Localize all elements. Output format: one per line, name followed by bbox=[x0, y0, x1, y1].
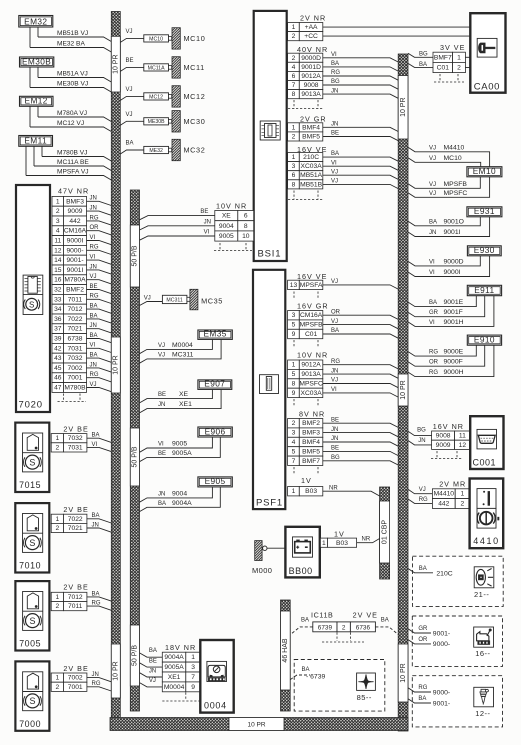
svg-text:9001E: 9001E bbox=[444, 299, 464, 306]
svg-text:2V BE: 2V BE bbox=[63, 505, 88, 514]
svg-text:OR: OR bbox=[429, 360, 439, 366]
svg-text:9001D: 9001D bbox=[301, 64, 321, 71]
svg-text:VJ: VJ bbox=[90, 382, 97, 388]
svg-text:VI: VI bbox=[204, 230, 210, 236]
svg-text:7032: 7032 bbox=[68, 435, 83, 442]
svg-text:210C: 210C bbox=[436, 571, 452, 578]
svg-text:BMF3: BMF3 bbox=[302, 430, 320, 437]
svg-text:OR: OR bbox=[418, 637, 428, 643]
svg-text:9000H: 9000H bbox=[444, 369, 464, 376]
svg-text:S: S bbox=[29, 616, 35, 626]
svg-text:9: 9 bbox=[292, 390, 296, 397]
svg-text:JN: JN bbox=[331, 88, 338, 94]
svg-text:VJ: VJ bbox=[158, 353, 165, 359]
svg-text:C001: C001 bbox=[473, 457, 497, 467]
svg-text:MC10: MC10 bbox=[444, 155, 462, 162]
svg-text:12: 12 bbox=[459, 442, 467, 449]
svg-text:VJ: VJ bbox=[126, 29, 133, 35]
svg-text:11: 11 bbox=[54, 238, 61, 245]
svg-text:BE: BE bbox=[90, 284, 98, 290]
svg-text:46 HAB: 46 HAB bbox=[282, 638, 289, 662]
svg-text:M780A VJ: M780A VJ bbox=[57, 110, 87, 117]
svg-text:2: 2 bbox=[56, 208, 60, 215]
svg-text:7022: 7022 bbox=[68, 316, 83, 323]
svg-text:7001: 7001 bbox=[68, 375, 83, 382]
svg-text:BA: BA bbox=[90, 333, 98, 339]
svg-text:EM11: EM11 bbox=[24, 136, 47, 146]
svg-text:MB51A: MB51A bbox=[300, 172, 322, 179]
svg-text:E930: E930 bbox=[474, 245, 495, 255]
svg-text:9000I: 9000I bbox=[67, 238, 84, 245]
svg-text:6738: 6738 bbox=[68, 336, 83, 343]
svg-text:VJ: VJ bbox=[429, 182, 436, 188]
svg-text:12--: 12-- bbox=[475, 709, 490, 718]
svg-text:9001-: 9001- bbox=[66, 257, 83, 264]
svg-text:9: 9 bbox=[292, 331, 296, 338]
svg-text:45: 45 bbox=[54, 365, 62, 372]
svg-text:MB51B: MB51B bbox=[300, 181, 322, 188]
svg-text:BE: BE bbox=[158, 451, 166, 457]
svg-text:21--: 21-- bbox=[474, 590, 489, 599]
svg-text:7000: 7000 bbox=[19, 719, 41, 729]
svg-text:7015: 7015 bbox=[19, 480, 41, 490]
svg-text:VJ: VJ bbox=[331, 279, 338, 285]
svg-text:RG: RG bbox=[418, 685, 427, 691]
svg-text:BE: BE bbox=[158, 392, 166, 398]
svg-text:7011: 7011 bbox=[68, 296, 83, 303]
svg-text:BA: BA bbox=[381, 618, 389, 624]
svg-text:VJ: VJ bbox=[90, 274, 97, 280]
svg-text:JN: JN bbox=[331, 436, 338, 442]
svg-text:8: 8 bbox=[244, 223, 248, 230]
svg-text:9004A: 9004A bbox=[164, 654, 184, 661]
svg-text:11: 11 bbox=[459, 433, 466, 440]
svg-text:JN: JN bbox=[90, 196, 97, 202]
svg-text:14: 14 bbox=[54, 257, 62, 264]
svg-text:EM12: EM12 bbox=[25, 96, 48, 106]
svg-text:VI: VI bbox=[331, 160, 337, 166]
svg-text:9001F: 9001F bbox=[444, 309, 463, 316]
svg-text:MC311: MC311 bbox=[166, 297, 182, 303]
svg-text:33: 33 bbox=[54, 296, 62, 303]
svg-text:OR: OR bbox=[331, 309, 341, 315]
svg-text:S: S bbox=[29, 696, 35, 706]
svg-text:9000I: 9000I bbox=[444, 269, 461, 276]
svg-text:BMF4: BMF4 bbox=[302, 124, 320, 131]
svg-text:16: 16 bbox=[54, 277, 62, 284]
svg-text:ME32 BA: ME32 BA bbox=[57, 40, 85, 47]
svg-text:9008: 9008 bbox=[436, 433, 451, 440]
svg-text:7002: 7002 bbox=[68, 365, 83, 372]
svg-text:BB00: BB00 bbox=[289, 566, 313, 576]
svg-text:VI: VI bbox=[158, 442, 164, 448]
svg-text:B03: B03 bbox=[305, 488, 317, 495]
svg-text:MC30: MC30 bbox=[184, 117, 206, 126]
svg-text:RG: RG bbox=[90, 372, 99, 378]
svg-text:VJ: VJ bbox=[144, 295, 151, 301]
svg-text:XC03A: XC03A bbox=[300, 390, 322, 397]
svg-text:1: 1 bbox=[56, 198, 60, 205]
svg-text:2V MR: 2V MR bbox=[439, 480, 466, 489]
svg-text:10V NR: 10V NR bbox=[297, 350, 328, 359]
svg-text:MC11: MC11 bbox=[184, 63, 205, 72]
svg-text:2: 2 bbox=[292, 420, 296, 427]
svg-text:BMF5: BMF5 bbox=[302, 134, 320, 141]
svg-text:9013A: 9013A bbox=[301, 371, 321, 378]
svg-text:7012: 7012 bbox=[68, 594, 83, 601]
svg-text:VI: VI bbox=[429, 259, 435, 265]
svg-text:MPSFC: MPSFC bbox=[299, 381, 323, 388]
svg-text:3: 3 bbox=[292, 430, 296, 437]
svg-text:9001O: 9001O bbox=[444, 218, 464, 225]
svg-text:M780A: M780A bbox=[64, 277, 86, 284]
svg-text:MB51A VJ: MB51A VJ bbox=[57, 70, 88, 77]
svg-text:MC12 VJ: MC12 VJ bbox=[57, 120, 84, 127]
svg-text:GR: GR bbox=[418, 626, 428, 632]
svg-text:XE: XE bbox=[179, 391, 189, 398]
svg-text:BE: BE bbox=[331, 131, 339, 137]
svg-text:VI: VI bbox=[331, 52, 337, 58]
svg-text:BA: BA bbox=[149, 648, 157, 654]
svg-text:VI: VI bbox=[331, 387, 337, 393]
svg-text:M0004: M0004 bbox=[172, 342, 193, 349]
svg-text:210C: 210C bbox=[303, 154, 319, 161]
svg-text:BE: BE bbox=[331, 446, 339, 452]
svg-text:S: S bbox=[29, 538, 35, 548]
svg-text:C01: C01 bbox=[305, 331, 318, 338]
svg-text:7032: 7032 bbox=[68, 355, 83, 362]
svg-text:2V BE: 2V BE bbox=[63, 583, 88, 592]
svg-text:NR: NR bbox=[362, 537, 371, 543]
svg-text:VI: VI bbox=[429, 320, 435, 326]
svg-text:7010: 7010 bbox=[19, 561, 41, 571]
svg-text:BE: BE bbox=[126, 58, 134, 64]
svg-text:EM10: EM10 bbox=[473, 166, 496, 176]
svg-text:E905: E905 bbox=[205, 476, 226, 486]
svg-text:JN: JN bbox=[90, 323, 97, 329]
svg-text:M4410: M4410 bbox=[434, 491, 455, 498]
svg-text:BMF2: BMF2 bbox=[302, 420, 320, 427]
svg-text:3: 3 bbox=[191, 664, 195, 671]
svg-text:E910: E910 bbox=[474, 335, 495, 345]
svg-text:9000-: 9000- bbox=[66, 247, 83, 254]
svg-text:BE: BE bbox=[331, 417, 339, 423]
svg-text:BMF5: BMF5 bbox=[302, 448, 320, 455]
svg-text:JN: JN bbox=[92, 672, 99, 678]
svg-text:9009: 9009 bbox=[436, 442, 451, 449]
svg-text:JN: JN bbox=[418, 438, 425, 444]
svg-text:10 PR: 10 PR bbox=[113, 355, 120, 374]
svg-text:ME32: ME32 bbox=[149, 148, 163, 154]
svg-text:BA: BA bbox=[90, 304, 98, 310]
svg-text:1: 1 bbox=[292, 124, 296, 131]
svg-text:M000: M000 bbox=[252, 566, 272, 575]
svg-text:JN: JN bbox=[158, 402, 165, 408]
svg-text:BA: BA bbox=[331, 151, 339, 157]
svg-text:VI: VI bbox=[429, 270, 435, 276]
svg-text:10 PR: 10 PR bbox=[400, 380, 407, 399]
svg-text:MPSFB: MPSFB bbox=[444, 181, 468, 188]
svg-text:01 CBP: 01 CBP bbox=[381, 520, 388, 544]
svg-text:5: 5 bbox=[292, 371, 296, 378]
svg-text:BE: BE bbox=[200, 209, 208, 215]
svg-text:2: 2 bbox=[292, 33, 296, 40]
svg-text:7031: 7031 bbox=[68, 444, 83, 451]
svg-text:32: 32 bbox=[54, 287, 62, 294]
svg-text:10 PR: 10 PR bbox=[113, 661, 120, 680]
svg-text:JN: JN bbox=[331, 427, 338, 433]
svg-text:RG: RG bbox=[331, 70, 340, 76]
svg-text:RG: RG bbox=[90, 294, 99, 300]
svg-text:ME30B: ME30B bbox=[148, 119, 166, 125]
svg-text:MC11A BE: MC11A BE bbox=[57, 159, 89, 166]
svg-text:9001H: 9001H bbox=[444, 319, 464, 326]
svg-text:JN: JN bbox=[90, 206, 97, 212]
svg-text:4410: 4410 bbox=[473, 536, 499, 546]
svg-text:10 PR: 10 PR bbox=[247, 721, 265, 728]
svg-text:JN: JN bbox=[158, 492, 165, 498]
svg-text:OR: OR bbox=[90, 225, 100, 231]
svg-text:9004: 9004 bbox=[219, 223, 234, 230]
svg-text:1: 1 bbox=[461, 491, 465, 498]
svg-text:4: 4 bbox=[292, 64, 296, 71]
svg-text:8: 8 bbox=[292, 181, 296, 188]
svg-text:BA: BA bbox=[158, 501, 166, 507]
svg-text:BSI1: BSI1 bbox=[258, 249, 282, 260]
svg-text:M4410: M4410 bbox=[444, 144, 465, 151]
svg-text:3: 3 bbox=[292, 312, 296, 319]
svg-text:10 PR: 10 PR bbox=[400, 97, 407, 116]
svg-text:JN: JN bbox=[204, 219, 211, 225]
svg-text:RG: RG bbox=[429, 370, 438, 376]
svg-text:47: 47 bbox=[54, 385, 62, 392]
svg-text:VJ: VJ bbox=[331, 179, 338, 185]
svg-text:2: 2 bbox=[56, 603, 60, 610]
svg-text:2V VE: 2V VE bbox=[353, 611, 378, 620]
svg-text:10: 10 bbox=[242, 233, 250, 240]
svg-text:JN: JN bbox=[149, 668, 156, 674]
svg-text:6: 6 bbox=[244, 213, 248, 220]
svg-text:9000E: 9000E bbox=[444, 349, 464, 356]
svg-text:7012: 7012 bbox=[68, 306, 83, 313]
svg-text:ME30B VJ: ME30B VJ bbox=[57, 80, 88, 87]
svg-text:RG: RG bbox=[92, 681, 101, 687]
svg-text:7022: 7022 bbox=[68, 516, 83, 523]
svg-text:MC35: MC35 bbox=[201, 297, 223, 306]
svg-text:7021: 7021 bbox=[68, 326, 83, 333]
svg-text:7005: 7005 bbox=[19, 639, 41, 649]
svg-text:VJ: VJ bbox=[149, 678, 156, 684]
svg-text:MC12: MC12 bbox=[184, 92, 206, 101]
svg-text:MPSFA VJ: MPSFA VJ bbox=[57, 168, 89, 175]
svg-text:JN: JN bbox=[90, 362, 97, 368]
svg-text:9000D: 9000D bbox=[301, 55, 321, 62]
svg-text:9001I: 9001I bbox=[67, 267, 84, 274]
svg-text:6: 6 bbox=[292, 172, 296, 179]
svg-text:CM16A: CM16A bbox=[64, 228, 87, 235]
svg-text:37: 37 bbox=[54, 326, 62, 333]
svg-text:18V NR: 18V NR bbox=[165, 643, 196, 652]
svg-text:4: 4 bbox=[292, 439, 296, 446]
svg-text:9005A: 9005A bbox=[172, 450, 192, 457]
svg-text:3: 3 bbox=[56, 218, 60, 225]
svg-text:2: 2 bbox=[292, 55, 296, 62]
svg-text:9004: 9004 bbox=[172, 491, 187, 498]
svg-text:CA00: CA00 bbox=[474, 82, 500, 93]
svg-text:BA: BA bbox=[418, 696, 426, 702]
svg-text:85--: 85-- bbox=[357, 693, 372, 702]
svg-text:RG: RG bbox=[331, 359, 340, 365]
svg-text:46: 46 bbox=[54, 375, 62, 382]
svg-text:7011: 7011 bbox=[68, 603, 83, 610]
svg-text:9005A: 9005A bbox=[164, 664, 184, 671]
svg-text:MC12: MC12 bbox=[149, 94, 163, 100]
svg-text:6736: 6736 bbox=[356, 625, 371, 632]
svg-text:43: 43 bbox=[54, 355, 62, 362]
svg-text:9001I: 9001I bbox=[444, 229, 461, 236]
svg-text:2: 2 bbox=[56, 444, 60, 451]
svg-text:VJ: VJ bbox=[158, 343, 165, 349]
svg-text:3V VE: 3V VE bbox=[440, 43, 465, 52]
svg-text:2: 2 bbox=[56, 525, 60, 532]
svg-text:442: 442 bbox=[438, 501, 449, 508]
svg-text:16V NR: 16V NR bbox=[433, 422, 464, 431]
svg-text:2V NR: 2V NR bbox=[300, 13, 326, 22]
svg-text:VI: VI bbox=[92, 442, 98, 448]
svg-text:VJ: VJ bbox=[429, 156, 436, 162]
svg-text:15: 15 bbox=[54, 267, 62, 274]
svg-text:BG: BG bbox=[419, 52, 428, 58]
svg-text:16V GR: 16V GR bbox=[297, 302, 329, 311]
svg-text:BA: BA bbox=[92, 433, 100, 439]
svg-text:BA: BA bbox=[90, 353, 98, 359]
svg-text:BMF2: BMF2 bbox=[66, 287, 84, 294]
svg-text:7020: 7020 bbox=[19, 400, 43, 411]
svg-text:34: 34 bbox=[54, 306, 62, 313]
svg-text:B03: B03 bbox=[336, 540, 348, 547]
svg-text:4: 4 bbox=[56, 228, 60, 235]
svg-text:9009: 9009 bbox=[68, 208, 83, 215]
svg-text:2V BE: 2V BE bbox=[63, 425, 88, 434]
svg-text:BA: BA bbox=[302, 667, 310, 673]
svg-text:VJ: VJ bbox=[126, 87, 133, 93]
svg-text:2: 2 bbox=[461, 501, 465, 508]
svg-text:1: 1 bbox=[56, 594, 60, 601]
svg-text:MC32: MC32 bbox=[184, 146, 206, 155]
svg-text:S: S bbox=[29, 300, 34, 309]
svg-text:7031: 7031 bbox=[68, 345, 83, 352]
svg-text:1: 1 bbox=[292, 488, 296, 495]
svg-text:BMF7: BMF7 bbox=[434, 54, 452, 61]
svg-text:VI: VI bbox=[90, 255, 96, 261]
svg-text:EM32: EM32 bbox=[24, 16, 47, 26]
svg-text:7001: 7001 bbox=[68, 684, 83, 691]
svg-text:VJ: VJ bbox=[331, 169, 338, 175]
svg-text:BA: BA bbox=[126, 141, 134, 147]
svg-text:47V NR: 47V NR bbox=[58, 187, 89, 196]
svg-text:MPSFB: MPSFB bbox=[300, 322, 324, 329]
svg-text:VI: VI bbox=[90, 235, 96, 241]
svg-text:1: 1 bbox=[56, 435, 60, 442]
svg-text:BMF7: BMF7 bbox=[302, 458, 320, 465]
svg-text:VJ: VJ bbox=[331, 319, 338, 325]
svg-text:BA: BA bbox=[92, 513, 100, 519]
svg-text:BA: BA bbox=[331, 61, 339, 67]
svg-text:BMF4: BMF4 bbox=[302, 439, 320, 446]
svg-text:E911: E911 bbox=[474, 285, 494, 295]
svg-text:BG: BG bbox=[417, 428, 426, 434]
svg-text:BA: BA bbox=[90, 313, 98, 319]
svg-text:50 P/B: 50 P/B bbox=[132, 446, 139, 467]
svg-text:NR: NR bbox=[329, 486, 338, 492]
svg-text:M780B: M780B bbox=[64, 385, 86, 392]
svg-text:8V NR: 8V NR bbox=[299, 410, 325, 419]
svg-text:BA: BA bbox=[419, 566, 427, 572]
svg-text:JN: JN bbox=[429, 230, 436, 236]
svg-text:IC11B: IC11B bbox=[311, 611, 333, 620]
svg-text:9000F: 9000F bbox=[444, 359, 463, 366]
svg-text:VJ: VJ bbox=[126, 112, 133, 118]
svg-text:BG: BG bbox=[331, 79, 340, 85]
svg-text:BMF3: BMF3 bbox=[66, 198, 84, 205]
svg-text:40V NR: 40V NR bbox=[297, 45, 328, 54]
svg-text:BA: BA bbox=[429, 300, 437, 306]
svg-text:5: 5 bbox=[292, 448, 296, 455]
svg-text:3: 3 bbox=[292, 163, 296, 170]
svg-text:M0004: M0004 bbox=[164, 684, 185, 691]
svg-text:50 P/B: 50 P/B bbox=[132, 245, 139, 266]
svg-text:10 PR: 10 PR bbox=[400, 663, 407, 682]
svg-text:6739: 6739 bbox=[318, 625, 333, 632]
svg-text:BA: BA bbox=[92, 591, 100, 597]
svg-text:9: 9 bbox=[191, 684, 195, 691]
svg-text:10 PR: 10 PR bbox=[113, 54, 120, 73]
svg-text:2V GR: 2V GR bbox=[300, 114, 327, 123]
svg-text:0004: 0004 bbox=[204, 701, 227, 711]
svg-text:RG: RG bbox=[429, 350, 438, 356]
svg-text:16--: 16-- bbox=[475, 649, 490, 658]
svg-text:MPSFC: MPSFC bbox=[444, 190, 468, 197]
svg-text:1: 1 bbox=[191, 654, 195, 661]
svg-text:C01: C01 bbox=[437, 65, 450, 72]
svg-text:2: 2 bbox=[457, 65, 461, 72]
svg-text:BA: BA bbox=[429, 219, 437, 225]
svg-text:5: 5 bbox=[292, 322, 296, 329]
svg-text:JN: JN bbox=[331, 368, 338, 374]
svg-text:XE1: XE1 bbox=[179, 401, 192, 408]
svg-text:10V NR: 10V NR bbox=[216, 201, 247, 210]
svg-text:MC11A: MC11A bbox=[148, 65, 165, 71]
svg-text:42: 42 bbox=[54, 345, 62, 352]
svg-text:CM16A: CM16A bbox=[300, 312, 323, 319]
svg-text:XE1: XE1 bbox=[168, 674, 181, 681]
svg-text:2: 2 bbox=[342, 625, 346, 632]
svg-text:9000-: 9000- bbox=[433, 641, 450, 648]
svg-text:50 P/B: 50 P/B bbox=[132, 645, 139, 666]
svg-text:BA: BA bbox=[301, 618, 309, 624]
svg-text:BG: BG bbox=[331, 455, 340, 461]
svg-text:2V BE: 2V BE bbox=[63, 664, 88, 673]
svg-text:MC10: MC10 bbox=[149, 36, 163, 42]
svg-text:8: 8 bbox=[292, 91, 296, 98]
svg-text:1V: 1V bbox=[301, 476, 312, 485]
svg-text:2: 2 bbox=[56, 684, 60, 691]
svg-text:BA: BA bbox=[419, 62, 427, 68]
svg-text:39: 39 bbox=[54, 336, 62, 343]
svg-text:E906: E906 bbox=[205, 426, 226, 436]
svg-text:+CC: +CC bbox=[304, 33, 318, 40]
svg-text:7021: 7021 bbox=[68, 525, 83, 532]
